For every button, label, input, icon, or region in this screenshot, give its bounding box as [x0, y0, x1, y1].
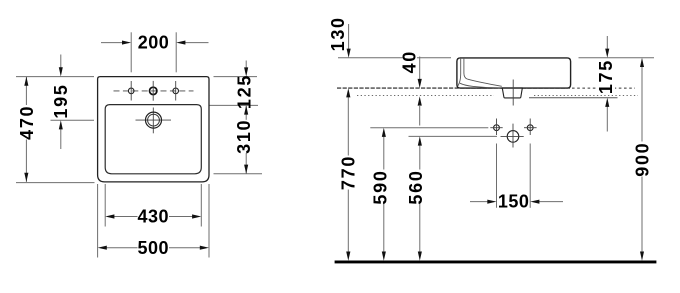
dimension 40: [419, 57, 421, 80]
mounting hole right: [527, 125, 533, 131]
drain hole crosshair horizontal: [501, 135, 524, 137]
svg-text:40: 40: [400, 50, 420, 73]
drain inner circle: [148, 114, 160, 126]
extension line 430 right below: [200, 184, 202, 227]
svg-text:200: 200: [138, 33, 170, 53]
svg-text:130: 130: [328, 16, 348, 51]
svg-text:175: 175: [596, 59, 616, 94]
dimension 125 (rim to inner bowl): [245, 61, 247, 69]
counter top dashed line: [337, 87, 570, 89]
mounting hole right extension down: [529, 144, 531, 208]
svg-text:150: 150: [498, 191, 530, 211]
drain bottom level line: [529, 97, 618, 99]
dimension 200 (faucet hole spacing): [101, 42, 123, 44]
extension line 500 right below: [208, 184, 210, 258]
dimension 175: [598, 61, 616, 93]
svg-text:590: 590: [371, 169, 391, 204]
washbasin profile (side view): [457, 58, 571, 88]
drain outer circle: [146, 112, 162, 128]
dimension 430 (inner bowl width): [114, 216, 138, 218]
extension line top rim left (y=76.6): [16, 76, 94, 78]
svg-text:900: 900: [632, 142, 652, 177]
dimension 195 (rim to drain center): [60, 55, 62, 69]
dimension 310 (inner bowl depth): [245, 105, 247, 119]
bowl slope lower line: [460, 83, 501, 88]
drain hole crosshair vertical: [512, 124, 514, 148]
drain fitting below basin: [502, 88, 522, 98]
dimension 470 (overall depth): [25, 77, 27, 105]
faucet hole left: [128, 88, 134, 94]
washbasin outer rim (top view): [98, 77, 209, 182]
faucet hole right crosshair vertical: [175, 81, 177, 101]
svg-text:125: 125: [235, 74, 255, 109]
mounting hole left: [494, 125, 500, 131]
svg-text:500: 500: [138, 238, 170, 258]
extension line mounting holes level (y=127.5): [370, 127, 488, 129]
faucet hole right: [173, 88, 179, 94]
svg-text:195: 195: [51, 83, 71, 118]
extension line top rim right (y=76.6): [214, 76, 258, 78]
dimension 130: [348, 24, 350, 49]
svg-text:430: 430: [138, 207, 170, 227]
svg-text:470: 470: [17, 105, 37, 140]
extension line drain hole level (y=136.2): [409, 135, 498, 137]
extension line inner bowl bottom right (y=173.8): [214, 173, 263, 175]
faucet hole center: [150, 87, 157, 94]
mounting hole left extension down: [496, 144, 498, 208]
dimension 900 (rim height above floor): [641, 66, 643, 141]
drain centerline: [512, 80, 514, 106]
svg-text:560: 560: [406, 169, 426, 204]
faucet hole center crosshair vertical: [152, 81, 154, 101]
svg-text:770: 770: [339, 155, 359, 190]
dimension 500 (overall width): [106, 247, 137, 249]
extension line inner bowl top right (y=105.4): [204, 104, 258, 106]
mounting hole right crosshair horizontal: [524, 127, 537, 129]
extension line rim top right of basin (y=57.8): [579, 57, 655, 59]
extension line 200 left vertical: [130, 32, 132, 72]
floor line: [335, 261, 657, 264]
mounting hole right crosshair vertical: [529, 119, 531, 136]
extension line drain center left (y=120.2): [51, 119, 95, 121]
extension line rim top left of basin (y=57.8): [338, 57, 403, 59]
drain crosshair horizontal: [136, 119, 172, 121]
extension line 430 left below: [104, 184, 106, 227]
faucet hole left crosshair vertical: [130, 81, 132, 101]
washbasin inner bowl edge: [105, 105, 201, 174]
bowl slope upper line: [467, 79, 502, 86]
extension line bottom rim left (y=182.6): [16, 182, 95, 184]
drain crosshair vertical: [152, 108, 154, 134]
basin bottom edge across drain top: [502, 87, 523, 89]
mounting hole left crosshair vertical: [496, 119, 498, 136]
basin wall section outer line: [464, 59, 467, 79]
dimension 770 (counter height): [347, 97, 349, 156]
dotted reference line: [357, 94, 494, 96]
drain hole (side view): [507, 131, 519, 143]
extension line 200 right vertical: [175, 32, 177, 72]
dimension 150 (mounting hole spacing): [470, 201, 488, 203]
dimension 590 (mounting hole height): [383, 136, 385, 169]
dimension 560 (drain hole height): [419, 145, 421, 170]
svg-text:310: 310: [234, 119, 254, 154]
faucet hole centerline (dashed): [114, 90, 194, 92]
mounting hole left crosshair horizontal: [490, 127, 502, 129]
extension line 500 left below: [97, 184, 99, 258]
basin wall section inner line: [458, 59, 461, 86]
